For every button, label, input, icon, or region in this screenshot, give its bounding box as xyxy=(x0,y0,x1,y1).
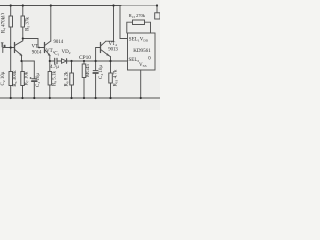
wire C1 to VD2 anode xyxy=(57,60,62,62)
svg-text:4.7μ: 4.7μ xyxy=(50,65,59,70)
svg-text:R8 8.2k: R8 8.2k xyxy=(64,71,69,87)
wire top supply rail xyxy=(0,5,121,7)
node dot ground R9 xyxy=(49,97,51,99)
wire R8 top lead xyxy=(71,61,73,73)
svg-text:C4 10μ: C4 10μ xyxy=(99,65,104,79)
node dot VT2 base branch xyxy=(95,60,97,62)
polarity plus for C3 xyxy=(30,77,32,79)
node dot rail R4 xyxy=(10,4,12,6)
node dot ground C3 xyxy=(33,97,35,99)
svg-text:C3 10μ: C3 10μ xyxy=(36,73,41,87)
svg-text:R6 300k: R6 300k xyxy=(13,70,18,87)
node dot ground C4 xyxy=(95,97,97,99)
svg-text:SEL1: SEL1 xyxy=(129,38,140,43)
wire MG45 top lead xyxy=(83,61,85,64)
wire node to VT2 base xyxy=(96,48,101,62)
svg-text:VT3: VT3 xyxy=(32,45,41,50)
svg-text:9013: 9013 xyxy=(108,48,118,53)
node dot ground R8 xyxy=(70,97,72,99)
IC U1 KD9561 sound generator xyxy=(128,33,156,70)
svg-text:R7 10k: R7 10k xyxy=(25,71,30,85)
stray mark top-left xyxy=(1,13,5,16)
resistor R8 xyxy=(70,73,74,85)
wire R8 bottom to ground xyxy=(71,85,73,98)
resistor cut off at edge xyxy=(155,13,160,19)
svg-text:C1: C1 xyxy=(54,52,59,57)
wire VT1 emitter node to R9 xyxy=(49,61,51,72)
node dot rail right end xyxy=(156,4,158,6)
wire trigger line VD2 to IC SEL2 xyxy=(67,60,128,62)
transistor VT4 xyxy=(101,41,114,56)
capacitor C1 xyxy=(55,58,57,63)
node dot rail VT4 collector xyxy=(112,4,114,6)
node dot ground VSS xyxy=(140,97,142,99)
resistor R5 xyxy=(21,16,25,27)
label current Ib xyxy=(1,42,6,47)
wire R4 bottom to VT3 base node xyxy=(10,27,12,48)
node dot VT3 emitter xyxy=(20,60,22,62)
node dot ground MG45 xyxy=(83,97,85,99)
svg-text:9014: 9014 xyxy=(54,40,64,45)
wire right edge branch xyxy=(156,6,158,13)
node dot trigger line xyxy=(70,60,72,62)
wire MG45 bottom to ground xyxy=(83,78,85,99)
node dot ground R11 xyxy=(109,97,111,99)
resistor R13 xyxy=(133,20,145,25)
wire VT3 base input stub xyxy=(3,47,15,49)
node dot rail R5 xyxy=(22,4,24,6)
svg-text:R11 4.7k: R11 4.7k xyxy=(114,69,119,86)
resistor R7 xyxy=(21,72,25,86)
diode VD2 xyxy=(62,59,67,64)
wire R9 bottom to ground xyxy=(49,85,51,98)
svg-text:R4 470k: R4 470k xyxy=(2,16,7,33)
wire bottom ground rail xyxy=(0,97,160,99)
wire VT4 collector to rail xyxy=(113,6,115,42)
wire emitter node to C1 xyxy=(50,60,55,62)
node dot VT4 emitter xyxy=(109,60,111,62)
svg-text:KD9561: KD9561 xyxy=(133,48,151,54)
svg-text:9014: 9014 xyxy=(32,51,42,56)
wire R5 bottom to VT3 collector node xyxy=(22,27,24,41)
wire VT1 collector to rail xyxy=(50,6,52,42)
node dot VT1 emitter xyxy=(49,60,51,62)
wire C4 bottom to ground xyxy=(95,73,97,98)
svg-text:SEL2: SEL2 xyxy=(129,58,140,63)
svg-text:MG45: MG45 xyxy=(86,63,91,77)
wire VT3 collector node to VT1 base xyxy=(23,39,45,48)
svg-text:VSS: VSS xyxy=(139,63,147,68)
wire R13 right pin xyxy=(145,22,151,33)
wire R13 left pin xyxy=(127,22,133,33)
node dot MG45 top xyxy=(83,60,85,62)
wire VT1 emitter down xyxy=(49,55,51,61)
wire R4 top lead xyxy=(10,6,12,17)
transistor VT1 xyxy=(45,41,51,55)
resistor R11 xyxy=(109,73,113,83)
svg-text:CP10: CP10 xyxy=(79,55,91,61)
svg-text:VD2: VD2 xyxy=(62,50,71,55)
svg-text:R5 37k: R5 37k xyxy=(26,17,31,31)
wire emitter node to R7 xyxy=(21,61,23,72)
wire SEL1 from rail xyxy=(120,6,128,39)
wire VT3 emitter down xyxy=(21,55,23,61)
capacitor C4 xyxy=(93,71,98,73)
wire input stub down tick xyxy=(2,48,4,53)
wire R11 bottom to ground xyxy=(110,83,112,98)
wire VT3 emitter node to C3 xyxy=(22,60,35,62)
wire VT4 emitter down xyxy=(110,57,112,61)
node dot ground R7 xyxy=(21,97,23,99)
resistor R9 xyxy=(48,72,52,86)
node dot rail VT1 collector xyxy=(50,4,52,6)
wire C3 bottom to ground xyxy=(33,82,35,99)
resistor R6 xyxy=(9,72,13,86)
wire emitter node to R11 xyxy=(110,61,112,73)
photoresistor RG MG45 xyxy=(82,64,86,78)
node dot ground R6 xyxy=(10,97,12,99)
svg-text:VDD: VDD xyxy=(140,38,149,43)
wire R6 bottom to ground xyxy=(10,86,12,99)
wire R5 top lead xyxy=(22,6,24,17)
capacitor C3 xyxy=(32,79,37,81)
resistor R4 xyxy=(9,16,13,27)
wire node to R6 xyxy=(10,48,12,72)
svg-text:VT4: VT4 xyxy=(109,42,118,47)
svg-text:C2 10μ: C2 10μ xyxy=(1,71,6,85)
wire C3 top lead xyxy=(33,61,35,79)
wire C4 top lead xyxy=(95,61,97,71)
transistor VT3 xyxy=(15,41,23,56)
svg-text:R9 5.1k: R9 5.1k xyxy=(53,70,58,86)
node dot R5 bottom branch xyxy=(22,37,24,39)
wire VSS pin to ground xyxy=(140,70,142,98)
wire R7 bottom to ground xyxy=(22,86,24,99)
node dot VT3 base xyxy=(10,46,12,48)
